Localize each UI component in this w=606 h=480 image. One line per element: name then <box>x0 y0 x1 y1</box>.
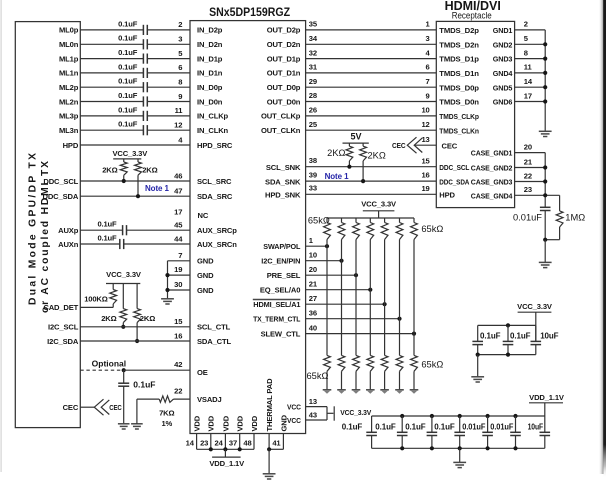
wire GND pin 30 <box>168 289 191 291</box>
capacitor 0.01uF (VDD bank #5) leads <box>487 416 489 432</box>
svg-text:0.1uF: 0.1uF <box>342 422 363 431</box>
svg-text:12: 12 <box>421 120 429 129</box>
wire pin row to pulldown #5 <box>384 304 386 355</box>
CASE_GND bus upper <box>544 153 546 208</box>
wire cap to chip pin 11 <box>147 115 190 117</box>
wire SWAP/POL to divider <box>306 245 327 247</box>
svg-text:16: 16 <box>421 171 429 180</box>
GND bus vertical <box>167 261 169 299</box>
svg-text:OUT_D0n: OUT_D0n <box>267 97 301 106</box>
VDD pin lead 3 <box>224 434 226 450</box>
svg-text:0.1uF: 0.1uF <box>118 34 138 43</box>
junction CASE_GND ground <box>543 238 547 242</box>
ground symbol (receptacle GND) <box>539 130 552 132</box>
svg-text:IN_D0n: IN_D0n <box>197 97 223 106</box>
svg-text:0.1uF: 0.1uF <box>118 48 138 57</box>
svg-text:CEC: CEC <box>392 141 406 150</box>
svg-text:HDMI_SEL/A1: HDMI_SEL/A1 <box>253 300 301 309</box>
svg-text:21: 21 <box>524 157 533 166</box>
wire VDD bus to rail <box>224 449 226 457</box>
svg-text:31: 31 <box>309 63 318 72</box>
resistor R 65k pulldown #7 <box>411 355 418 371</box>
svg-text:OUT_D1n: OUT_D1n <box>267 69 301 78</box>
svg-text:47: 47 <box>174 187 182 196</box>
svg-text:VCC: VCC <box>287 403 301 412</box>
junction bottom bus (VCC bank) 2 <box>506 353 510 357</box>
svg-text:IN_D1p: IN_D1p <box>197 54 223 63</box>
svg-text:10: 10 <box>421 106 429 115</box>
wire pulldown to ground #3 <box>355 371 357 389</box>
svg-text:TMDS_D0n: TMDS_D0n <box>439 98 479 107</box>
svg-text:TMDS_D0p: TMDS_D0p <box>439 83 479 92</box>
svg-text:10uF: 10uF <box>540 332 558 341</box>
resistor R 2K (SDA_SNK pullup) <box>360 146 367 161</box>
svg-text:SDA_SRC: SDA_SRC <box>197 192 233 201</box>
svg-text:45: 45 <box>174 221 183 230</box>
resistor R 65k pulldown #3 <box>353 355 360 371</box>
junction bottom bus (VDD bank) 487.6 <box>486 446 490 450</box>
wire CEC to receptacle <box>414 144 436 146</box>
junction divider 36 <box>397 317 401 321</box>
VCC_3.3V rail bar (DDC pullups) <box>113 158 141 160</box>
wire 2K to SDA_CTL <box>136 323 138 341</box>
junction SDA_SNK pullup <box>361 179 365 183</box>
resistor R 65k pulldown #1 <box>324 355 331 371</box>
svg-text:9: 9 <box>178 92 182 101</box>
junction GND bus 19 <box>165 273 169 277</box>
svg-text:0.1uF: 0.1uF <box>480 332 501 341</box>
wire cap to chip pin 44 <box>124 243 190 245</box>
capacitor 0.1uF (OE) <box>118 382 129 384</box>
svg-text:TMDS_D1n: TMDS_D1n <box>439 69 479 78</box>
wire cap to chip pin 12 <box>147 129 190 131</box>
svg-text:CEC: CEC <box>63 403 79 412</box>
svg-text:13: 13 <box>309 397 317 406</box>
svg-text:OUT_D2n: OUT_D2n <box>267 40 301 49</box>
svg-text:I2C_SCL: I2C_SCL <box>48 323 79 332</box>
svg-text:SDA_SNK: SDA_SNK <box>265 177 301 186</box>
svg-text:28: 28 <box>309 91 317 100</box>
svg-text:26: 26 <box>309 106 317 115</box>
VDD bus <box>197 448 254 450</box>
junction bottom bus (VDD bank) 402.2 <box>400 446 404 450</box>
wire pin row to pulldown #4 <box>369 290 371 356</box>
svg-text:17: 17 <box>174 207 182 216</box>
svg-text:CASE_GND1: CASE_GND1 <box>471 149 513 158</box>
svg-text:33: 33 <box>309 184 317 193</box>
svg-text:CASE_GND4: CASE_GND4 <box>471 191 513 200</box>
wire 2K to SCL_CTL <box>122 323 124 327</box>
wire to ground (VCC bank) <box>477 355 479 377</box>
svg-text:GND4: GND4 <box>493 69 513 78</box>
svg-text:7KΩ: 7KΩ <box>159 409 174 418</box>
array top bus <box>327 217 414 219</box>
svg-text:36: 36 <box>309 308 317 317</box>
svg-text:25: 25 <box>309 120 318 129</box>
svg-text:11: 11 <box>175 106 184 115</box>
resistor R 100K (CAD_DET pullup) <box>110 290 117 304</box>
capacitor 0.01uF (VDD bank #5) <box>482 431 493 433</box>
svg-text:0.1uF: 0.1uF <box>118 62 138 71</box>
svg-text:ML1n: ML1n <box>59 69 79 78</box>
capacitor 0.1uF (VDD bank #3) leads <box>431 416 433 432</box>
wire 10uF top lead (VCC bank) <box>535 325 537 341</box>
capacitor 0.1uF (VDD bank #4) <box>454 431 465 433</box>
svg-text:0.1uF: 0.1uF <box>118 77 138 86</box>
pullup 65k #1 lead <box>326 218 328 223</box>
junction receptacle GND bus <box>543 85 547 89</box>
resistor R 2K (SCL_SRC pullup) <box>120 162 127 175</box>
wire optional dashed to OE <box>80 369 123 371</box>
svg-text:1MΩ: 1MΩ <box>565 213 585 223</box>
svg-text:35: 35 <box>309 20 318 29</box>
svg-text:2KΩ: 2KΩ <box>142 165 157 174</box>
svg-text:EQ_SEL/A0: EQ_SEL/A0 <box>260 286 300 295</box>
wire ML3n to coupling cap <box>80 129 143 131</box>
svg-text:OUT_CLKp: OUT_CLKp <box>261 112 301 121</box>
wire OE to chip <box>124 369 190 371</box>
svg-text:14: 14 <box>524 77 533 86</box>
capacitor 0.1uF (VDD bank #1) <box>366 431 377 433</box>
svg-text:DDC_SCL: DDC_SCL <box>439 163 469 172</box>
ground symbol (thermal pad) <box>263 473 276 475</box>
svg-text:CASE_GND2: CASE_GND2 <box>471 164 513 173</box>
wire receptacle GND5 <box>515 86 546 88</box>
wire to ground (CASE_GND) <box>544 240 546 263</box>
svg-text:10: 10 <box>309 250 317 259</box>
thermal bus <box>269 448 283 450</box>
svg-text:27: 27 <box>309 294 317 303</box>
svg-text:30: 30 <box>174 280 182 289</box>
wire AUXn to coupling cap <box>80 243 120 245</box>
capacitor 10uF (VCC bank #3) <box>531 340 542 342</box>
capacitor 10uF (VCC bank #3) leads <box>535 325 537 341</box>
capacitor 0.1uF (VCC bank #2) <box>503 340 514 342</box>
junction CASE_GND bus <box>543 165 547 169</box>
wire OE cap to ground <box>123 386 125 424</box>
junction bottom bus (VDD bank) 431.9 <box>430 446 434 450</box>
junction receptacle GND bus <box>543 57 547 61</box>
junction divider 27 <box>383 302 387 306</box>
resistor R 65k pullup #5 <box>381 223 388 240</box>
svg-text:IN_CLKp: IN_CLKp <box>197 112 229 121</box>
svg-text:DDC_SCL: DDC_SCL <box>43 177 78 186</box>
overline HDMI_SEL/A1 <box>253 299 300 301</box>
svg-text:CEC: CEC <box>109 403 122 412</box>
wire GND pin 7 <box>168 260 191 262</box>
svg-text:IN_D1n: IN_D1n <box>197 69 223 78</box>
svg-text:VCC_3.3V: VCC_3.3V <box>517 302 553 311</box>
svg-text:22: 22 <box>174 387 182 396</box>
wire ML0p to coupling cap <box>80 29 143 31</box>
svg-text:29: 29 <box>309 77 317 86</box>
wire pulldown to ground #1 <box>326 371 328 389</box>
svg-text:THERMAL PAD: THERMAL PAD <box>265 378 274 432</box>
junction CASE_GND bus <box>543 193 547 197</box>
junction SCL_CTL pullup <box>121 325 125 329</box>
svg-text:41: 41 <box>272 439 281 448</box>
wire SLEW_CTL to divider <box>306 333 414 335</box>
ground arrow #2 <box>337 389 346 391</box>
svg-text:DDC_SDA: DDC_SDA <box>43 192 79 201</box>
wire HPD to HPD_SRC <box>80 144 190 146</box>
wire pullup to pin row #4 <box>369 240 371 290</box>
svg-text:SDA_CTL: SDA_CTL <box>197 337 231 346</box>
svg-text:7: 7 <box>426 77 430 86</box>
svg-text:13: 13 <box>421 135 429 144</box>
wire 2K to SCL_SRC <box>123 175 125 181</box>
svg-text:PRE_SEL: PRE_SEL <box>267 271 301 280</box>
svg-text:VDD: VDD <box>207 415 216 431</box>
VDD pin lead 2 <box>210 434 212 450</box>
wire ML2n to coupling cap <box>80 101 143 103</box>
svg-text:TMDS_CLKn: TMDS_CLKn <box>439 126 479 135</box>
svg-text:HPD_SRC: HPD_SRC <box>197 141 233 150</box>
junction divider 21 <box>368 288 372 292</box>
capacitor 0.1uF series AUXn <box>119 239 121 249</box>
svg-text:0.1uF: 0.1uF <box>97 220 117 229</box>
wire VCC join <box>326 407 328 420</box>
VCC_3.3V rail bar (array) <box>363 210 395 212</box>
wire cap to chip pin 5 <box>147 58 190 60</box>
svg-text:SCL_SNK: SCL_SNK <box>266 163 301 172</box>
wire AUXp to coupling cap <box>80 229 122 231</box>
junction OE cap <box>122 368 126 372</box>
svg-text:AUX_SRCp: AUX_SRCp <box>197 226 237 235</box>
wire cap to chip pin 2 <box>147 29 190 31</box>
wire ML1n to coupling cap <box>80 72 143 74</box>
wire VSADJ ground stem <box>136 399 138 424</box>
svg-text:VDD: VDD <box>221 415 230 431</box>
svg-text:43: 43 <box>309 411 317 420</box>
capacitor 10uF (VDD bank #7) leads <box>544 416 546 432</box>
wire GND pin 19 <box>168 274 191 276</box>
svg-text:38: 38 <box>309 156 317 165</box>
wire pin row to pulldown #1 <box>326 246 328 355</box>
CEC chevron (sink) <box>407 137 416 153</box>
svg-text:ML0n: ML0n <box>59 40 79 49</box>
wire cap to junction <box>544 211 546 240</box>
wire I2C_SCL to SCL_CTL <box>80 326 190 328</box>
resistor R 2K (I2C_SCL pullup) <box>120 309 127 323</box>
wire 7K to VSADJ pin <box>174 398 191 400</box>
wire ML2p to coupling cap <box>80 86 143 88</box>
wire 2K to SDA_SNK <box>362 161 364 181</box>
wire receptacle GND4 <box>515 72 546 74</box>
svg-text:17: 17 <box>524 91 532 100</box>
svg-text:VDD: VDD <box>250 415 259 431</box>
junction VDD bus <box>238 447 242 451</box>
svg-text:I2C_EN/PIN: I2C_EN/PIN <box>261 257 300 266</box>
wire chip OUT_D2n to receptacle <box>306 43 437 45</box>
svg-text:2KΩ: 2KΩ <box>368 151 386 161</box>
svg-text:VCC_3.3V: VCC_3.3V <box>106 270 142 279</box>
svg-text:Note 1: Note 1 <box>145 184 170 193</box>
svg-text:ML1p: ML1p <box>59 54 79 63</box>
GND 41 lead <box>282 434 284 450</box>
svg-text:AUXp: AUXp <box>58 226 79 235</box>
svg-text:0.1uF: 0.1uF <box>510 332 531 341</box>
capacitor 0.1uF (VDD bank #4) leads <box>459 416 461 432</box>
svg-text:2: 2 <box>178 20 182 29</box>
VDD pin lead 5 <box>253 434 255 450</box>
svg-text:39: 39 <box>309 171 317 180</box>
svg-text:GND1: GND1 <box>493 26 513 35</box>
svg-text:VDD: VDD <box>193 415 202 431</box>
cap bank bottom bus (VCC) <box>478 354 536 356</box>
junction SDA_SRC pullup <box>136 194 140 198</box>
ground arrow #6 <box>395 389 404 391</box>
wire pullup to pin row #2 <box>341 240 343 261</box>
junction SCL_SRC pullup <box>122 179 126 183</box>
wire chip OUT_D0p to receptacle <box>306 86 437 88</box>
wire chip OUT_D2p to receptacle <box>306 29 437 31</box>
svg-text:NC: NC <box>198 211 209 220</box>
wire receptacle CASE_GND4 <box>515 194 560 196</box>
capacitor 0.1uF (VCC bank #1) leads <box>477 325 479 341</box>
wire rail to cap bank <box>535 312 537 325</box>
svg-text:20: 20 <box>309 265 317 274</box>
svg-text:0.01uF: 0.01uF <box>462 422 485 431</box>
junction SDA_CTL pullup <box>135 339 139 343</box>
wire pullup to pin row #3 <box>355 240 357 276</box>
svg-text:11: 11 <box>524 63 533 72</box>
svg-text:GND: GND <box>197 257 214 266</box>
svg-text:3: 3 <box>426 34 430 43</box>
svg-text:VCC_3.3V: VCC_3.3V <box>361 199 397 208</box>
resistor 1M leads <box>559 195 561 211</box>
capacitor C4 0.1uF series ML1n <box>142 68 144 78</box>
resistor R 7K (VSADJ) <box>159 396 173 402</box>
VCC_3.3V rail bar (VCC pins) <box>333 406 335 420</box>
junction top bus (VDD bank) 402.2 <box>400 414 404 418</box>
svg-text:42: 42 <box>174 360 182 369</box>
svg-text:0.1uF: 0.1uF <box>118 19 138 28</box>
resistor R 65k pulldown #6 <box>396 355 403 371</box>
cap bank top bus (VCC) <box>478 324 536 326</box>
svg-text:ML2n: ML2n <box>59 97 79 106</box>
wire I2C_EN/PIN to divider <box>306 260 342 262</box>
svg-text:ML3n: ML3n <box>59 126 79 135</box>
svg-text:HPD: HPD <box>63 141 79 150</box>
svg-text:2KΩ: 2KΩ <box>140 314 155 323</box>
svg-text:65kΩ: 65kΩ <box>308 215 330 225</box>
VDD_1.1V rail bar (cap bank) <box>529 402 563 404</box>
capacitor 0.1uF (VDD bank #3) <box>427 431 438 433</box>
svg-text:GND: GND <box>197 286 214 295</box>
resistor R 65k pullup #4 <box>367 223 374 240</box>
svg-text:SCL_CTL: SCL_CTL <box>197 323 231 332</box>
svg-text:0.1uF: 0.1uF <box>118 105 138 114</box>
svg-text:0.1uF: 0.1uF <box>375 422 396 431</box>
svg-text:OE: OE <box>197 368 208 377</box>
junction receptacle GND bus <box>543 71 547 75</box>
wire OE cap lead <box>123 370 125 383</box>
resistor R 2K (SCL_SNK pullup) <box>346 146 353 161</box>
ground arrow #7 <box>410 389 419 391</box>
pullup 65k #6 lead <box>399 218 401 223</box>
ground symbol (VCC bank) <box>471 376 484 378</box>
svg-text:22: 22 <box>524 171 532 180</box>
wire I2C_SDA to SDA_CTL <box>80 340 190 342</box>
ground symbol (VDD bank) <box>453 461 466 463</box>
svg-text:IN_CLKn: IN_CLKn <box>197 126 229 135</box>
svg-text:SWAP/POL: SWAP/POL <box>263 242 300 251</box>
junction CASE_GND bus <box>543 179 547 183</box>
resistor R 65k pulldown #2 <box>338 355 345 371</box>
svg-text:12: 12 <box>174 121 182 130</box>
svg-text:Receptacle: Receptacle <box>452 11 492 21</box>
capacitor C3 0.1uF series ML1p <box>142 54 144 64</box>
junction divider 40 <box>412 332 416 336</box>
capacitor C7 0.1uF series ML3p <box>142 111 144 121</box>
ground symbol (chip GND pins) <box>161 298 174 300</box>
VDD_1.1V rail bar (chip) <box>212 456 241 458</box>
receptacle GND bus <box>544 30 546 131</box>
pullup 65k #2 lead <box>341 218 343 223</box>
capacitor 0.01uF (VDD bank #6) <box>510 431 521 433</box>
resistor 2K pullup SDA stem <box>137 159 139 162</box>
svg-text:10uF: 10uF <box>528 422 544 431</box>
svg-text:16: 16 <box>174 331 182 340</box>
pullup 65k #5 lead <box>384 218 386 223</box>
wire pulldown to ground #5 <box>384 371 386 389</box>
svg-text:VCC_3.3V: VCC_3.3V <box>112 149 148 158</box>
svg-text:19: 19 <box>174 265 182 274</box>
cap bank top bus (VDD) <box>372 415 545 417</box>
svg-text:HPD_SNK: HPD_SNK <box>265 191 301 200</box>
svg-text:0.1uF: 0.1uF <box>434 422 455 431</box>
capacitor 0.1uF (VDD bank #1) leads <box>371 416 373 432</box>
pullup 65k #7 lead <box>413 218 415 223</box>
svg-text:2: 2 <box>524 20 528 29</box>
ground symbol (CASE_GND) <box>539 261 552 263</box>
svg-text:32: 32 <box>309 48 317 57</box>
junction GND bus 30 <box>165 288 169 292</box>
svg-text:IN_D2p: IN_D2p <box>197 26 223 35</box>
wire 100K to CAD_DET <box>112 304 114 308</box>
junction divider 20 <box>354 273 358 277</box>
svg-text:15: 15 <box>421 156 430 165</box>
HDMI/DVI receptacle box <box>436 21 514 207</box>
wire pin row to pulldown #2 <box>341 261 343 356</box>
svg-text:2KΩ: 2KΩ <box>327 148 345 158</box>
wire pullup to pin row #5 <box>384 240 386 305</box>
svg-text:HPD: HPD <box>439 191 455 200</box>
svg-text:VDD_1.1V: VDD_1.1V <box>209 459 245 468</box>
wire chip OUT_D1p to receptacle <box>306 58 437 60</box>
wire cap to chip pin 3 <box>147 43 190 45</box>
resistor 2K stem (I2C_SCL) <box>122 284 124 309</box>
wire SDA_SNK to receptacle DDC_SDA <box>306 180 437 182</box>
svg-text:1%: 1% <box>161 419 172 428</box>
wire cap to chip pin 9 <box>147 101 190 103</box>
svg-text:15: 15 <box>174 317 183 326</box>
wire chip OUT_CLKn to receptacle <box>306 129 437 131</box>
wire HDMI_SEL/A1 to divider <box>306 303 385 305</box>
svg-text:3: 3 <box>178 35 182 44</box>
capacitor 0.1uF (VDD bank #2) leads <box>401 416 403 432</box>
svg-text:GND2: GND2 <box>493 40 513 49</box>
wire pin row to pulldown #3 <box>355 275 357 355</box>
svg-text:TMDS_D1p: TMDS_D1p <box>439 55 479 64</box>
wire CEC from source box <box>80 406 94 408</box>
resistor R 2K (SDA_SRC pullup) <box>135 162 142 175</box>
wire pin row to pulldown #6 <box>399 319 401 356</box>
source box: Dual Mode GPU/DP TX or AC coupled HDMI TX <box>15 22 80 428</box>
svg-text:65kΩ: 65kΩ <box>421 359 443 369</box>
wire ML0n to coupling cap <box>80 43 143 45</box>
